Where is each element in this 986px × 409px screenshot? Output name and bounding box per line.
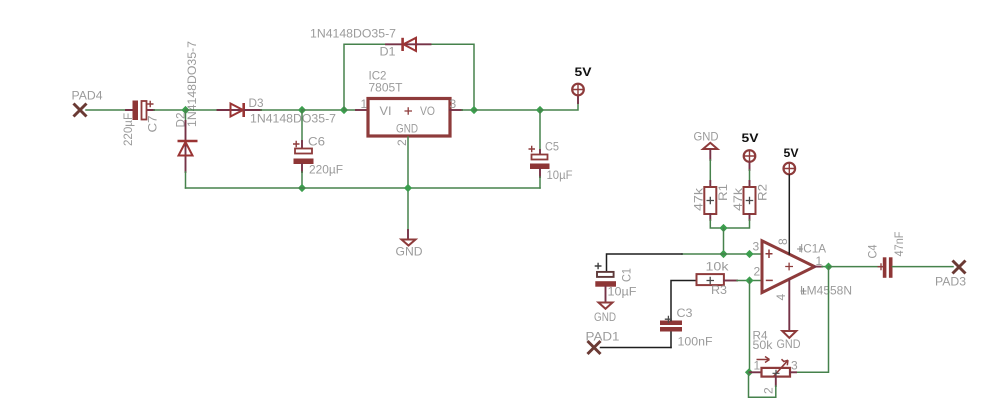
- svg-text:VI: VI: [380, 104, 392, 118]
- label LM4558N with origin cross: [800, 284, 852, 298]
- junction node pin3: [745, 250, 753, 258]
- svg-text:47k: 47k: [692, 187, 706, 211]
- wire node down to D2: [185, 110, 187, 122]
- junction node R4 pin1: [745, 368, 753, 376]
- wire node to IC2 pin 1: [344, 109, 356, 111]
- op-amp IC1A: [762, 241, 815, 293]
- junction node at C6 top: [298, 106, 306, 114]
- svg-text:5V: 5V: [784, 146, 799, 160]
- capacitor C6: [293, 141, 314, 172]
- svg-text:3: 3: [791, 359, 798, 373]
- diode D1: [386, 38, 431, 51]
- capacitor C3: [660, 281, 697, 348]
- svg-text:R3: R3: [711, 283, 727, 297]
- regulator IC2 7805T box: [368, 99, 450, 137]
- pad PAD4: [74, 104, 87, 117]
- junction node output: [824, 263, 832, 271]
- svg-text:1: 1: [361, 97, 368, 111]
- svg-text:C6: C6: [308, 135, 325, 149]
- capacitor C4: [878, 257, 893, 278]
- svg-text:1: 1: [754, 359, 761, 373]
- wire PAD4 to C7: [86, 109, 126, 111]
- ground GND (above R1, mirrored): [703, 143, 718, 160]
- pin 1 output line: [815, 266, 822, 268]
- wire C7 to node: [154, 109, 186, 111]
- wire D2 to bottom rail: [185, 172, 187, 188]
- supply 5V (left) pin: [577, 96, 579, 103]
- svg-text:PAD1: PAD1: [586, 330, 620, 344]
- svg-text:2: 2: [762, 387, 776, 394]
- wire C6 node down: [301, 110, 303, 141]
- supply symbol 5V (above R2): [744, 150, 756, 162]
- svg-text:1N4148DO35-7: 1N4148DO35-7: [185, 41, 199, 127]
- svg-text:10k: 10k: [706, 260, 730, 274]
- svg-text:PAD4: PAD4: [72, 89, 103, 103]
- wire op-amp pin 4 to GND: [788, 280, 790, 331]
- ground GND (below op-amp): [782, 331, 796, 338]
- svg-text:7805T: 7805T: [369, 81, 404, 95]
- diode D3: [218, 103, 262, 117]
- svg-text:LM4558N: LM4558N: [800, 284, 852, 298]
- svg-text:IC1A: IC1A: [800, 242, 826, 256]
- junction node R1R2: [719, 224, 727, 232]
- svg-text:C1: C1: [620, 268, 634, 282]
- wire IC2 pin3 to D1 right node: [462, 109, 474, 111]
- svg-text:100nF: 100nF: [678, 335, 713, 349]
- capacitor C7: [126, 101, 154, 121]
- svg-text:8: 8: [776, 238, 790, 245]
- svg-text:10µF: 10µF: [547, 168, 573, 182]
- wire R4 wiper loop to pin1 node: [749, 372, 776, 397]
- svg-text:4: 4: [774, 294, 788, 301]
- resistor R2: [744, 181, 756, 220]
- svg-text:3: 3: [753, 240, 760, 254]
- junction node +input: [719, 250, 727, 258]
- svg-text:220µF: 220µF: [309, 163, 343, 177]
- svg-text:220µF: 220µF: [121, 113, 135, 146]
- wire pin2 node down to R4: [749, 281, 751, 373]
- junction node pin2: [745, 276, 753, 284]
- svg-text:GND: GND: [777, 337, 801, 351]
- wire C5 node to 5V supply corner: [540, 103, 578, 110]
- svg-text:1N4148DO35-7: 1N4148DO35-7: [250, 112, 336, 126]
- svg-text:47k: 47k: [731, 187, 745, 211]
- svg-text:PAD3: PAD3: [935, 275, 966, 289]
- svg-text:R1: R1: [716, 184, 730, 201]
- label IC1A with origin cross: [797, 242, 826, 256]
- junction node D1 left riser: [340, 106, 348, 114]
- black wire PAD1 to C3: [601, 347, 672, 349]
- supply symbol 5V (left): [572, 84, 584, 96]
- diode D2: [178, 121, 198, 172]
- capacitor C1: [595, 263, 616, 303]
- wire 5V to R2: [749, 163, 751, 182]
- origin cross IC2: [405, 107, 413, 115]
- svg-text:10µF: 10µF: [608, 285, 637, 299]
- wire D3 to node C6: [261, 109, 302, 111]
- junction node at C5 top: [536, 106, 544, 114]
- wire down to +input node: [723, 228, 725, 254]
- svg-text:GND: GND: [594, 310, 616, 324]
- pin 1 line IC2: [356, 109, 367, 111]
- wire +input node to op-amp pin3: [682, 253, 762, 255]
- wire output to junction: [822, 266, 829, 268]
- wire feedback output to R4 pin3: [796, 267, 829, 373]
- wire node to D3: [186, 109, 219, 111]
- svg-text:50k: 50k: [753, 338, 774, 352]
- black wire C1 to +input node: [607, 254, 683, 271]
- resistor R1: [704, 181, 716, 220]
- svg-text:D3: D3: [249, 96, 264, 110]
- svg-text:C5: C5: [545, 140, 559, 154]
- svg-text:3: 3: [450, 97, 457, 111]
- svg-text:R2: R2: [756, 184, 770, 201]
- svg-text:47nF: 47nF: [892, 232, 906, 257]
- svg-text:GND: GND: [396, 245, 423, 259]
- wire C4 to PAD3: [893, 266, 954, 268]
- wire to node D1-left: [302, 109, 344, 111]
- bottom rail wire: [186, 187, 541, 189]
- wire D1 loop: riser left, top, riser right: [344, 44, 474, 110]
- svg-text:C7: C7: [146, 115, 160, 132]
- wire C6 to bottom rail: [301, 172, 303, 188]
- junction node at C7/D2: [181, 106, 189, 114]
- wire IC2 pin2 riser: [407, 137, 409, 230]
- pad PAD3: [953, 261, 966, 274]
- svg-text:2: 2: [395, 139, 409, 146]
- svg-text:GND: GND: [694, 130, 719, 144]
- ground GND (below C1): [599, 303, 613, 309]
- svg-text:C3: C3: [677, 306, 693, 320]
- potentiometer R4: [749, 357, 796, 387]
- svg-text:5V: 5V: [742, 131, 759, 145]
- svg-text:1N4148DO35-7: 1N4148DO35-7: [310, 27, 396, 41]
- svg-text:C4: C4: [866, 244, 880, 258]
- junction node D1 right riser: [470, 106, 478, 114]
- wire R1/R2 bottoms joined: [710, 220, 749, 228]
- black wire 5V to op-amp pin 8: [788, 175, 790, 254]
- junction node C6 bottom: [298, 184, 306, 192]
- wire GND to R1: [709, 160, 711, 181]
- wire output node to C4: [829, 266, 883, 268]
- resistor R3: [697, 274, 738, 285]
- pin 3 line IC2 to node: [450, 109, 462, 111]
- supply symbol 5V (op-amp): [784, 163, 796, 175]
- svg-text:5V: 5V: [575, 65, 592, 79]
- svg-text:GND: GND: [396, 122, 418, 136]
- capacitor C5: [529, 110, 550, 188]
- svg-text:VO: VO: [420, 104, 435, 118]
- pad PAD1: [588, 341, 601, 354]
- svg-text:2: 2: [754, 265, 761, 279]
- wire R3 to op-amp pin2: [737, 280, 762, 282]
- svg-text:D1: D1: [380, 45, 396, 59]
- ground GND (below IC2): [402, 230, 416, 246]
- wire node to C5 node: [474, 109, 540, 111]
- junction node IC2 gnd: [404, 184, 412, 192]
